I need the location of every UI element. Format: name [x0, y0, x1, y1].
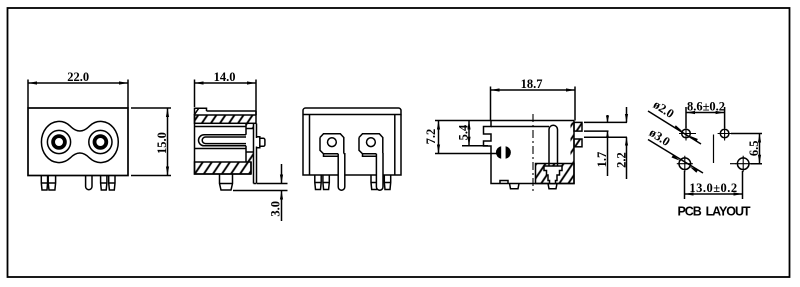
view3 left terminal head — [320, 134, 344, 157]
view1 right pin pair — [101, 176, 107, 190]
view1 middle pin — [86, 176, 92, 190]
view4 body outline — [484, 121, 575, 184]
svg-text:13.0±0.2: 13.0±0.2 — [689, 181, 737, 195]
view2 top hatch band — [195, 115, 257, 123]
view3 body — [303, 115, 401, 176]
svg-text:5.4: 5.4 — [457, 124, 471, 140]
svg-text:18.7: 18.7 — [521, 77, 543, 91]
view3 left terminal hole — [328, 138, 337, 147]
dim 14.0 — [195, 80, 257, 115]
svg-text:7.2: 7.2 — [424, 129, 438, 145]
view4 right tab1 — [574, 122, 582, 131]
svg-text:2.2: 2.2 — [615, 152, 629, 168]
view4 pin capsule — [549, 125, 558, 167]
dim 22.0 — [28, 80, 128, 108]
view4 left foot — [510, 184, 520, 189]
dim 7.2 — [435, 121, 497, 154]
svg-text:1.7: 1.7 — [595, 152, 609, 168]
pcb hole top-right — [720, 129, 729, 138]
view3 left pin pair — [315, 175, 321, 190]
pcb hole top-left — [682, 129, 691, 138]
view4 screw slot — [496, 146, 501, 159]
dim 3.0 — [233, 164, 288, 221]
dim 18.7 — [491, 87, 576, 121]
view3 right terminal head — [359, 134, 383, 157]
dim 5.4 — [462, 121, 488, 146]
view3 right pin pair — [371, 175, 377, 190]
svg-text:15.0: 15.0 — [155, 132, 169, 154]
leader o3.0 — [648, 140, 703, 174]
view2 right wall hatched — [246, 124, 254, 129]
view4 center foot — [548, 184, 557, 189]
view4 terminal steps — [544, 166, 562, 184]
pcb hole bottom-right — [737, 158, 749, 170]
view3 right terminal blade — [376, 154, 383, 190]
pcb hole bottom-left — [679, 158, 691, 170]
view1 left contact annulus — [53, 136, 65, 148]
view4 hatch base block — [536, 164, 575, 184]
pcb centerline dashes — [690, 134, 736, 164]
view4 right tab2 — [574, 139, 582, 147]
dim 6.5 — [731, 134, 762, 164]
view2 bottom hatch band — [195, 162, 252, 174]
view1 body — [28, 108, 128, 176]
view2 contact bar — [246, 124, 254, 163]
svg-text:22.0: 22.0 — [67, 70, 89, 84]
view1 right contact ring — [89, 130, 112, 153]
svg-text:8.6±0.2: 8.6±0.2 — [687, 100, 725, 114]
view2 top surface — [207, 111, 257, 115]
view3 left terminal blade — [338, 154, 345, 190]
view1 right contact annulus — [95, 136, 107, 148]
view3 top bar — [303, 108, 401, 115]
pcb centerline vertical — [713, 135, 715, 164]
view2 terminal stub — [257, 137, 265, 148]
view2 top-left tab — [195, 108, 207, 115]
view2 flange plate — [254, 124, 257, 184]
view3 right terminal hole — [367, 138, 376, 147]
view1 left pin pair — [41, 176, 47, 190]
svg-text:ø3.0: ø3.0 — [647, 125, 673, 149]
svg-text:3.0: 3.0 — [269, 201, 283, 217]
dim 15.0 — [131, 108, 171, 176]
svg-text:6.5: 6.5 — [747, 140, 761, 156]
view2 contact slot — [199, 135, 246, 146]
svg-text:PCB LAYOUT: PCB LAYOUT — [677, 205, 750, 219]
view1 left contact ring — [47, 130, 70, 153]
dim 13.0+-0.2 — [685, 171, 743, 199]
svg-text:14.0: 14.0 — [214, 70, 236, 84]
leader o2.0 — [648, 111, 701, 144]
dim 2.2 — [584, 107, 627, 179]
view4 centerline — [532, 114, 534, 194]
view2 interior lines — [195, 127, 247, 149]
view4 right wall hatch — [571, 122, 575, 163]
dim 8.6+-0.2 — [686, 107, 725, 128]
view2 body outline — [195, 114, 252, 174]
view1 figure-8 opening — [41, 121, 118, 162]
view4 bottom small notch — [500, 181, 508, 184]
dim 1.7 — [584, 115, 627, 176]
view4 interior shelf — [491, 126, 549, 128]
svg-text:ø2.0: ø2.0 — [651, 97, 677, 121]
view2 bottom pin — [220, 174, 233, 190]
